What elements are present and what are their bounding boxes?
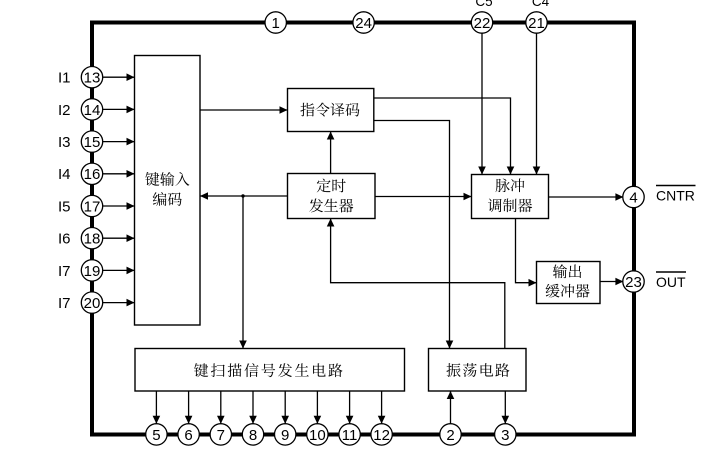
svg-text:CNTR: CNTR — [656, 188, 695, 204]
svg-text:4: 4 — [629, 189, 637, 206]
svg-text:13: 13 — [84, 70, 101, 87]
svg-text:23: 23 — [625, 274, 642, 291]
svg-text:6: 6 — [184, 427, 192, 444]
svg-text:12: 12 — [373, 427, 390, 444]
svg-text:9: 9 — [281, 427, 289, 444]
svg-text:I5: I5 — [58, 198, 71, 215]
svg-text:I1: I1 — [58, 70, 71, 87]
svg-text:OUT: OUT — [656, 274, 686, 290]
svg-text:2: 2 — [446, 427, 454, 444]
svg-text:I4: I4 — [58, 166, 71, 183]
svg-text:24: 24 — [355, 15, 372, 32]
svg-text:I7: I7 — [58, 295, 71, 312]
svg-text:C5: C5 — [475, 0, 492, 9]
svg-text:20: 20 — [84, 295, 101, 312]
svg-text:C4: C4 — [532, 0, 550, 9]
svg-text:19: 19 — [84, 263, 101, 280]
svg-text:21: 21 — [528, 15, 545, 32]
svg-text:14: 14 — [84, 102, 101, 119]
svg-text:5: 5 — [152, 427, 160, 444]
svg-text:10: 10 — [309, 427, 326, 444]
svg-text:I6: I6 — [58, 231, 71, 248]
svg-text:I3: I3 — [58, 134, 71, 151]
svg-text:17: 17 — [84, 198, 101, 215]
svg-text:11: 11 — [342, 427, 358, 444]
svg-text:I2: I2 — [58, 102, 71, 119]
svg-text:1: 1 — [272, 15, 280, 32]
svg-text:I7: I7 — [58, 263, 71, 280]
svg-text:16: 16 — [84, 166, 101, 183]
svg-text:22: 22 — [474, 15, 491, 32]
svg-text:8: 8 — [249, 427, 257, 444]
svg-text:18: 18 — [84, 231, 101, 248]
svg-text:3: 3 — [501, 427, 509, 444]
svg-text:15: 15 — [84, 134, 101, 151]
svg-text:7: 7 — [217, 427, 225, 444]
